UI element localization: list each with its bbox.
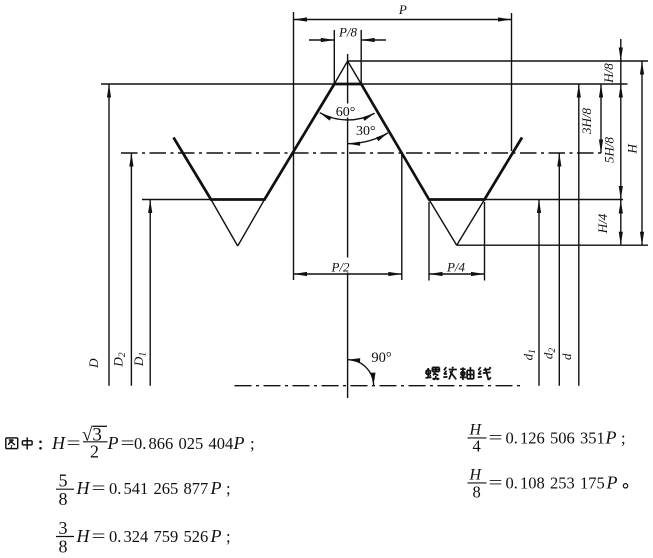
- dimension line D: [108, 84, 110, 386]
- label wen (CJK): [444, 367, 446, 370]
- svg-text:3H/8: 3H/8: [579, 108, 594, 136]
- white gap for 60 label: [335, 104, 358, 118]
- svg-text:025: 025: [179, 434, 204, 453]
- svg-text:253: 253: [550, 474, 575, 493]
- profile left flank (cut end): [174, 138, 212, 200]
- svg-text:0.: 0.: [134, 434, 148, 453]
- svg-text:90°: 90°: [371, 350, 392, 366]
- H/4 top arrowhead: [619, 200, 623, 214]
- svg-text:5: 5: [59, 471, 68, 491]
- svg-text:506: 506: [550, 429, 575, 448]
- H/4 bottom arrowhead: [619, 232, 623, 246]
- svg-text:0.: 0.: [109, 479, 123, 498]
- dimension line D1: [149, 200, 151, 386]
- profile rising flank: [265, 84, 335, 200]
- tooth centerline segment above apex: [347, 54, 349, 104]
- tooth centerline segment lower: [347, 257, 349, 398]
- formula3 fraction bar: [56, 536, 74, 538]
- svg-text:P: P: [605, 428, 617, 448]
- apex thin triangle left side: [334, 61, 347, 84]
- P/8 right extension line: [360, 30, 362, 84]
- svg-text:P: P: [233, 433, 245, 453]
- svg-text:d: d: [559, 353, 574, 360]
- label xian (CJK): [478, 367, 480, 370]
- svg-text:0.: 0.: [506, 474, 520, 493]
- svg-text:0.: 0.: [109, 527, 123, 546]
- svg-text:=: =: [92, 527, 106, 546]
- svg-text:D: D: [86, 358, 101, 369]
- P/8 left extension line: [333, 30, 335, 84]
- profile right flank (cut end): [485, 138, 523, 200]
- svg-text:=: =: [92, 479, 106, 498]
- svg-text:5H/8: 5H/8: [601, 137, 616, 164]
- svg-text:;: ;: [250, 434, 255, 453]
- svg-text:=: =: [489, 428, 503, 447]
- svg-text:;: ;: [226, 479, 231, 498]
- svg-text:8: 8: [473, 483, 481, 502]
- svg-text:H: H: [51, 433, 66, 453]
- svg-text:;: ;: [226, 527, 231, 546]
- 30 degree arc: [348, 133, 388, 144]
- formula prefix colon: [39, 441, 42, 444]
- dimension P/8 left arrow: [309, 39, 334, 41]
- label zhou (CJK): [460, 368, 465, 370]
- P right extension line: [511, 13, 513, 151]
- svg-text:541: 541: [124, 479, 149, 498]
- svg-text:2: 2: [90, 442, 99, 462]
- minor diameter line right extension: [485, 199, 624, 201]
- dimension line d1: [538, 200, 540, 386]
- 60 arc right arrowhead: [363, 113, 375, 121]
- svg-text:759: 759: [154, 527, 179, 546]
- dimension line 3H/8: [600, 84, 602, 153]
- H/8 lower arrow (shared with 5H/8 top): [619, 84, 623, 98]
- svg-text:526: 526: [184, 527, 209, 546]
- label luo (CJK): [427, 368, 429, 377]
- svg-text:;: ;: [621, 429, 626, 448]
- svg-text:175: 175: [580, 474, 605, 493]
- dimension line d: [578, 84, 580, 386]
- dimension line P/2: [294, 273, 402, 275]
- svg-text:265: 265: [154, 479, 179, 498]
- dimension line P/4: [429, 273, 485, 275]
- svg-text:H: H: [76, 478, 91, 498]
- profile right root flat: [428, 198, 486, 201]
- svg-text:H/4: H/4: [595, 213, 610, 234]
- right root thin V left side: [429, 200, 457, 246]
- svg-text:P: P: [107, 433, 119, 453]
- svg-text:866: 866: [149, 434, 174, 453]
- 90 arc top arrowhead: [348, 358, 361, 363]
- formula2 fraction bar: [56, 488, 74, 490]
- svg-text:=: =: [121, 434, 135, 453]
- svg-text:P/4: P/4: [446, 260, 466, 275]
- formula prefix zhong (CJK): [22, 440, 32, 442]
- svg-text:H: H: [469, 467, 483, 484]
- formula1 fraction bar: [83, 441, 108, 443]
- major diameter crest line D/d: [101, 83, 628, 85]
- formula prefix tu (CJK): [6, 437, 18, 439]
- tooth centerline segment mid: [347, 118, 349, 258]
- dimension line H: [641, 61, 643, 245]
- profile crest flat: [333, 83, 362, 86]
- left root thin V left side: [211, 200, 238, 247]
- svg-text:P: P: [210, 526, 222, 546]
- svg-text:351: 351: [580, 429, 605, 448]
- dimension line P: [294, 19, 512, 21]
- apex thin triangle right side: [348, 61, 362, 84]
- svg-text:126: 126: [520, 429, 545, 448]
- formula5 fraction bar: [468, 482, 487, 484]
- svg-text:8: 8: [59, 489, 68, 509]
- pitch line D2/d2 (dash-dot): [121, 152, 605, 154]
- bottom of fundamental triangle line: [457, 244, 648, 246]
- svg-text:3: 3: [59, 518, 68, 538]
- svg-text:P: P: [398, 2, 407, 17]
- svg-text:30°: 30°: [356, 124, 376, 139]
- right root thin V right side: [457, 200, 485, 246]
- minor diameter line left extension: [142, 199, 211, 201]
- dimension P/8 right arrow: [361, 39, 386, 41]
- svg-text:324: 324: [124, 527, 149, 546]
- formula4 fraction bar: [468, 437, 487, 439]
- P/4 left extension line: [428, 202, 430, 281]
- 90 arc bottom arrowhead: [371, 373, 376, 386]
- svg-text:H/8: H/8: [601, 63, 616, 84]
- svg-text:P/8: P/8: [338, 25, 358, 40]
- svg-text:=: =: [489, 473, 503, 492]
- 30 arc left arrowhead: [348, 142, 361, 146]
- svg-text:877: 877: [184, 479, 209, 498]
- dimension line 5H/8 and H/4 carrier: [620, 61, 622, 245]
- svg-text:P/2: P/2: [330, 260, 350, 275]
- 60 degree arc: [320, 113, 375, 120]
- apex level line (top of fundamental triangle): [348, 60, 648, 62]
- thread axis line (dash-dot): [235, 385, 525, 387]
- P/2 right extension line: [401, 154, 403, 280]
- svg-text:108: 108: [520, 474, 545, 493]
- P/4 right extension line: [484, 202, 486, 281]
- svg-text:60°: 60°: [336, 105, 356, 120]
- svg-text:4: 4: [473, 437, 481, 456]
- svg-text:404: 404: [209, 434, 234, 453]
- svg-text:P: P: [210, 478, 222, 498]
- 30 arc right arrowhead: [376, 133, 388, 141]
- 5H/8 bottom arrowhead: [619, 186, 623, 200]
- svg-text:H: H: [625, 143, 640, 154]
- svg-text:P: P: [606, 473, 618, 493]
- white gap for P/2 label: [329, 258, 356, 273]
- 90 degree arc: [348, 360, 374, 386]
- dimension line D2: [130, 153, 132, 386]
- P left extension line: [293, 12, 295, 280]
- formula5 fullstop: [623, 484, 627, 488]
- profile left root flat: [210, 198, 266, 201]
- H/8 upper arrow tail: [620, 39, 622, 61]
- 60 arc left arrowhead: [320, 113, 332, 121]
- svg-text:0.: 0.: [506, 429, 520, 448]
- svg-text:=: =: [67, 434, 81, 453]
- svg-text:8: 8: [59, 536, 68, 556]
- left root thin V right side: [238, 200, 265, 247]
- svg-text:H: H: [76, 526, 91, 546]
- profile falling flank: [361, 84, 429, 200]
- dimension line d2: [558, 153, 560, 386]
